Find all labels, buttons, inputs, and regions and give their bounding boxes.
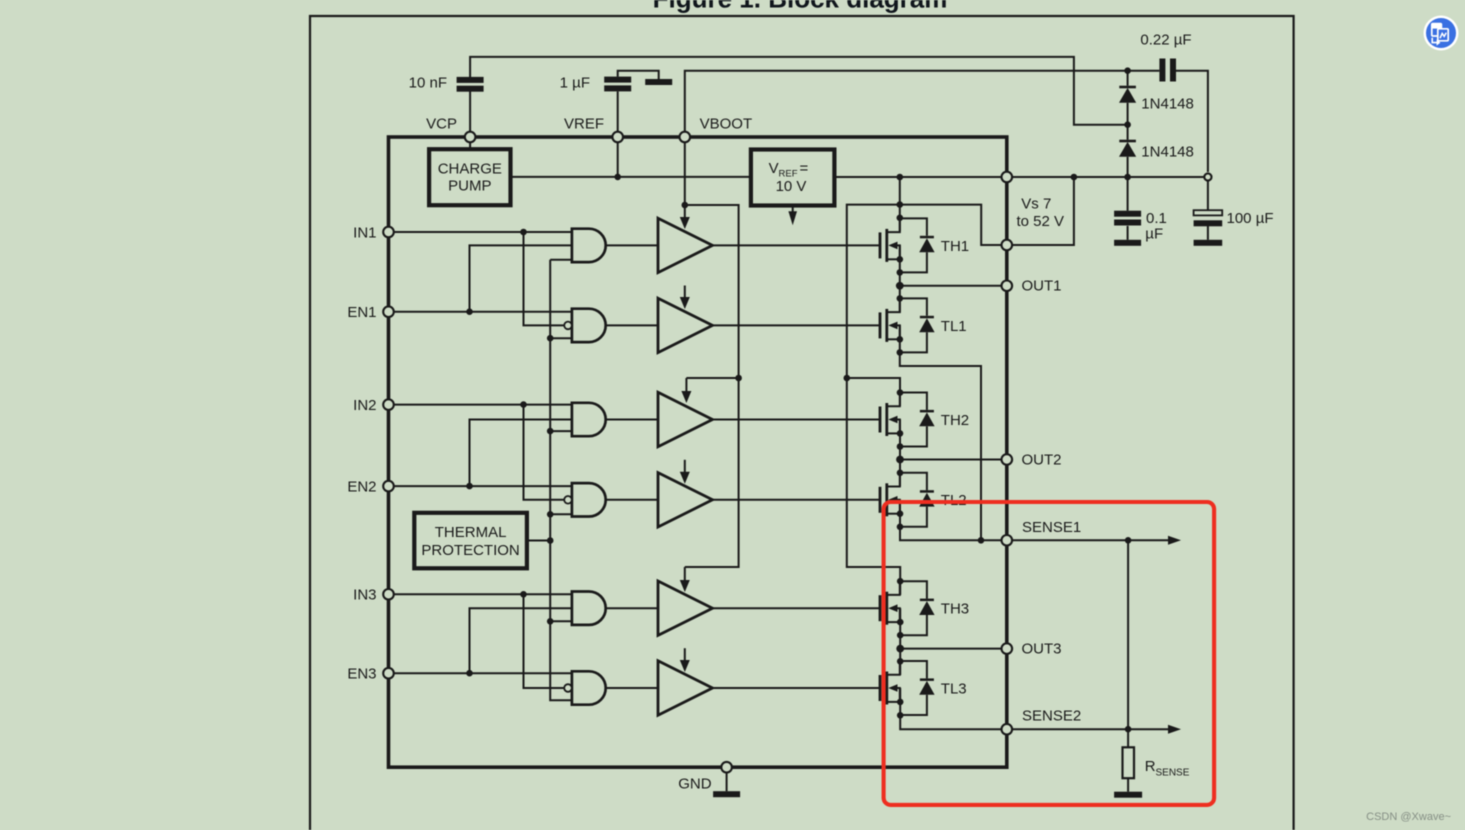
wire TL2 source to SENSE1 pin [900, 500, 1002, 541]
wire IN2 to inverting input gate 4 [524, 405, 565, 500]
svg-text:PROTECTION: PROTECTION [421, 542, 519, 559]
junction TL1 source [897, 336, 904, 343]
transistor TH3 body diode [900, 581, 935, 635]
svg-text:IN1: IN1 [353, 224, 376, 241]
pin IN1 [383, 227, 394, 238]
wire thermal bus input stub [550, 430, 572, 432]
wire IN3 to inverting input gate 6 [524, 594, 565, 688]
AND gate G1 [572, 229, 606, 262]
wire Vs supply line external [1012, 176, 1208, 178]
junction sense bus / SENSE1 [978, 537, 985, 544]
svg-text:CSDN @Xwave~: CSDN @Xwave~ [1366, 811, 1451, 823]
pin Vs 2 [1002, 240, 1013, 251]
junction Vs line / TH1 drain rail [897, 174, 904, 181]
junction TH1 drain node [897, 201, 904, 208]
junction TL3 diode top [897, 658, 904, 665]
junction drain bus channel 2 [844, 375, 851, 382]
junction TH1 diode top [897, 215, 904, 222]
pin VREF [612, 132, 623, 143]
wire EN3 to gate 5 [470, 608, 572, 673]
junction OUT2 node [896, 456, 904, 464]
svg-text:THERMAL: THERMAL [435, 524, 507, 541]
transistor TL2 body diode [900, 473, 935, 527]
wire buffer B4 to gate of transistor [713, 499, 881, 501]
transistor TL2 symbol [880, 473, 900, 517]
wire buffer B1 to gate of transistor [713, 244, 881, 246]
wire AND gate G4 (inverting input) output [606, 499, 658, 501]
wire TH3 source to TL3 drain [899, 608, 901, 675]
pin GND [721, 762, 732, 773]
svg-text:OUT2: OUT2 [1022, 451, 1062, 468]
wire thermal protection bus [550, 260, 572, 701]
thermal protection box [414, 513, 527, 569]
wire buffer B5 to gate of transistor [713, 607, 881, 609]
charge pump box [429, 149, 510, 205]
junction TH3 diode top [897, 578, 904, 585]
wire GND pin to ground [726, 772, 728, 791]
AND gate G3 [572, 403, 606, 436]
pin VCP [465, 132, 476, 143]
transistor TL1 body diode [900, 298, 935, 352]
wire VBOOT pin down to buffer bus [684, 137, 686, 205]
wire EN3 to gate 6 [389, 672, 572, 674]
wire VBOOT to 0.22uF cap [685, 71, 1160, 137]
buffer driver B3 [658, 392, 713, 446]
svg-text:CHARGE: CHARGE [438, 161, 502, 178]
junction OUT1 node [896, 282, 904, 290]
pin IN2 [383, 399, 394, 410]
diode D2 1N4148 [1119, 125, 1136, 177]
pin OUT2 [1002, 454, 1013, 465]
ground Rsense [1114, 792, 1142, 798]
wire TH2 source to TL2 drain [899, 420, 901, 487]
junction EN1 bus [466, 308, 473, 315]
junction IN2 bus [520, 401, 527, 408]
svg-text:Vs 7: Vs 7 [1021, 196, 1051, 213]
svg-text:TL3: TL3 [941, 680, 967, 697]
wire thermal bus input stub [550, 337, 572, 339]
svg-text:0.1: 0.1 [1146, 210, 1167, 227]
wire TH1 drain to Vs pin 2 [900, 205, 1002, 245]
arrow supply into buffer B6 [680, 648, 690, 672]
transistor TH2 body diode [900, 393, 935, 447]
junction TH3 diode bottom [897, 632, 904, 639]
wire OUT1 node to pin [900, 285, 1002, 287]
transistor TL3 symbol [880, 661, 900, 705]
svg-text:TH3: TH3 [941, 601, 969, 618]
svg-text:PUMP: PUMP [448, 178, 491, 195]
buffer driver B2 [658, 298, 713, 352]
terminal Vs supply [1204, 173, 1211, 180]
wire TH3 drain rail [899, 581, 901, 595]
wire AND gate G2 (inverting input) output [606, 324, 658, 326]
wire TL3 source to SENSE2 pin [900, 688, 1002, 729]
wire OUT2 node to pin [900, 459, 1002, 461]
wire AND gate G5 output [606, 607, 658, 609]
junction EN2 bus [466, 483, 473, 490]
wire VREF cap to VREF pin [617, 92, 619, 138]
svg-text:SENSE1: SENSE1 [1022, 519, 1081, 536]
wire TH1 source to TL1 drain [899, 245, 901, 312]
junction EN3 bus [466, 670, 473, 677]
svg-text:µF: µF [1145, 226, 1163, 243]
wire IN2 to gate 3 [389, 404, 572, 406]
junction OUT3 node [896, 645, 904, 653]
junction SENSE1 / Rsense [1125, 537, 1132, 544]
wire charge pump output line [511, 176, 751, 178]
svg-text:TL1: TL1 [941, 318, 967, 335]
junction thermal bus / gate 4 [547, 511, 554, 518]
capacitor 100 uF (polarized) [1194, 210, 1223, 226]
pin OUT1 [1002, 281, 1013, 292]
wire SENSE2 external with arrow [1012, 725, 1181, 734]
svg-text:TH1: TH1 [941, 238, 969, 255]
svg-text:GND: GND [678, 776, 712, 793]
capacitor 10 nF [457, 77, 484, 92]
svg-text:IN3: IN3 [353, 587, 376, 604]
arrow VBOOT into buffer B1 [680, 205, 690, 229]
wire TH2 drain rail [899, 393, 901, 407]
wire buffer B3 to gate of transistor [713, 419, 881, 421]
pin VBOOT [680, 132, 691, 143]
capacitor 1 uF [604, 77, 631, 92]
svg-text:EN1: EN1 [347, 304, 376, 321]
wire VCP pin to charge pump [469, 137, 471, 149]
transistor TH3 symbol [880, 581, 900, 625]
transistor TL3 body diode [900, 661, 935, 715]
AND gate G2 (inverting input) [564, 309, 605, 342]
pin EN3 [383, 668, 394, 679]
buffer driver B1 [658, 218, 713, 272]
wire supply to Vs pin 2 [1012, 177, 1074, 245]
svg-text:V: V [769, 160, 779, 177]
buffer driver B5 [658, 581, 713, 635]
junction Vs line / pin loop [1071, 174, 1078, 181]
wire thermal box output [527, 540, 550, 542]
wire 0.22uF cap to supply terminal [1176, 71, 1208, 172]
svg-text:=: = [800, 160, 809, 177]
junction IN3 bus [520, 591, 527, 598]
wire thermal bus to gate 1 [550, 259, 572, 261]
wire Vs to 0.1uF cap [1127, 177, 1129, 211]
capacitor 0.1 uF [1114, 211, 1141, 226]
AND gate G4 (inverting input) [564, 483, 606, 516]
wire to Rsense [1127, 729, 1129, 747]
wire VCP cap to diode junction [470, 57, 1128, 125]
arrow VREF internal supply [788, 206, 797, 226]
buffer driver B4 [658, 473, 713, 527]
svg-text:OUT1: OUT1 [1022, 278, 1062, 295]
pin SENSE2 [1002, 724, 1013, 735]
junction TL1 diode bottom [897, 349, 904, 356]
wire buffer B2 to gate of transistor [713, 324, 881, 326]
wire IN1 to gate 1 [389, 231, 572, 233]
junction TH2 source [897, 430, 904, 437]
svg-text:Figure 1. Block diagram: Figure 1. Block diagram [653, 0, 948, 14]
wire AND gate G1 output [606, 244, 658, 246]
svg-text:10 nF: 10 nF [409, 75, 447, 92]
ground near 1 uF cap [645, 79, 672, 85]
pin EN1 [383, 306, 394, 317]
wire VCP cap to VCP pin [469, 92, 471, 138]
junction TH1 diode bottom [897, 269, 904, 276]
pin IN3 [383, 589, 394, 600]
wire VBOOT bus to buffer 3 [686, 377, 738, 379]
wire IN1 to inverting input gate 2 [524, 232, 565, 325]
wire EN1 to gate 2 [389, 311, 572, 313]
svg-text:VREF: VREF [564, 116, 604, 133]
junction Vs line / D2 / 0.1uF [1124, 174, 1131, 181]
transistor TL1 symbol [880, 298, 900, 342]
transistor TH1 symbol [880, 218, 900, 262]
junction TL3 source [897, 699, 904, 706]
arrow supply into buffer B2 [680, 286, 690, 310]
junction TL1 diode top [897, 295, 904, 302]
diode D1 1N4148 [1119, 71, 1136, 125]
svg-text:VCP: VCP [426, 116, 457, 133]
wire 0.1uF cap to ground [1127, 226, 1129, 240]
svg-text:1N4148: 1N4148 [1141, 144, 1194, 161]
junction TH1 source [897, 256, 904, 263]
junction thermal bus / gate 3 [547, 428, 554, 435]
ground GND [713, 791, 740, 797]
svg-text:1 µF: 1 µF [560, 75, 590, 92]
svg-text:100 µF: 100 µF [1227, 210, 1274, 227]
svg-text:VBOOT: VBOOT [700, 116, 753, 133]
wire 100uF cap to ground [1207, 226, 1209, 240]
junction VBOOT / D1 / 0.22uF [1124, 67, 1131, 74]
junction TL2 diode bottom [897, 524, 904, 531]
wire TH1 drain rail [899, 177, 901, 231]
AND gate G6 (inverting input) [564, 671, 606, 704]
AND gate G5 [572, 592, 606, 625]
wire SENSE1 external with arrow [1012, 536, 1181, 545]
wire terminal to 100uF cap [1207, 177, 1209, 210]
pin SENSE1 [1002, 535, 1013, 546]
wire AND gate G6 (inverting input) output [606, 687, 658, 689]
svg-text:R: R [1145, 758, 1156, 775]
wire Rsense to ground [1127, 778, 1129, 792]
junction TH2 diode bottom [897, 443, 904, 450]
capacitor 0.22 uF [1159, 59, 1176, 82]
wire IN3 to gate 5 [389, 593, 572, 595]
svg-text:EN3: EN3 [347, 666, 376, 683]
wire thermal bus input stub [550, 620, 572, 622]
wire EN1 to gate 1 [470, 245, 572, 311]
wire SENSE1 to SENSE2 [1127, 540, 1129, 729]
svg-text:SENSE2: SENSE2 [1022, 708, 1081, 725]
wire buffer B6 to gate of transistor [713, 687, 881, 689]
svg-text:1N4148: 1N4148 [1141, 96, 1194, 113]
svg-text:to 52 V: to 52 V [1017, 213, 1065, 230]
svg-text:IN2: IN2 [353, 397, 376, 414]
IC block border [389, 137, 1007, 767]
arrow supply into buffer B4 [680, 460, 690, 484]
junction SENSE2 / Rsense [1125, 726, 1132, 733]
junction thermal bus / gate 2 [547, 335, 554, 342]
red highlight rectangle [884, 502, 1215, 805]
junction TH3 source [897, 619, 904, 626]
figure border [310, 16, 1294, 830]
blue image icon top right [1424, 16, 1459, 51]
buffer driver B6 [658, 661, 713, 715]
junction thermal bus / gate 5 [547, 618, 554, 625]
pin Vs [1002, 172, 1013, 183]
junction VBOOT bus / buffer 1 [682, 202, 689, 209]
svg-text:10 V: 10 V [776, 178, 807, 195]
wire VBOOT bus to channel 2 [685, 205, 739, 378]
junction VREF / charge pump line [614, 174, 621, 181]
wire VREF box to Vs pin [834, 176, 1001, 178]
junction TL2 diode top [897, 470, 904, 477]
VREF regulator box [751, 150, 835, 206]
resistor Rsense [1123, 747, 1135, 778]
ground 100 uF [1194, 240, 1223, 246]
wire TL1 source to sense bus [900, 325, 981, 540]
pin EN2 [383, 481, 394, 492]
pin OUT3 [1002, 643, 1013, 654]
transistor TH1 body diode [900, 218, 935, 272]
junction TL2 source [897, 510, 904, 517]
junction TL3 diode bottom [897, 712, 904, 719]
wire thermal bus input stub [550, 513, 572, 515]
wire AND gate G3 output [606, 419, 658, 421]
junction D1 / D2 / VCP wire [1124, 121, 1131, 128]
arrow VBOOT into buffer B5 [680, 567, 690, 592]
wire EN2 to gate 3 [470, 420, 572, 487]
svg-text:OUT3: OUT3 [1022, 640, 1062, 657]
junction VBOOT bus channel 2 [735, 375, 742, 382]
wire VBOOT bus to buffer 5 [685, 378, 739, 567]
wire OUT3 node to pin [900, 648, 1002, 650]
arrow VBOOT into buffer B3 [681, 378, 691, 403]
junction IN1 bus [520, 229, 527, 236]
wire VREF pin down [617, 137, 619, 177]
svg-text:SENSE: SENSE [1156, 767, 1190, 778]
wire VREF cap to ground [618, 71, 659, 79]
transistor TH2 symbol [880, 393, 900, 437]
wire drain bus Vs to TH2 TH3 [847, 205, 900, 582]
svg-text:EN2: EN2 [347, 479, 376, 496]
junction thermal bus / thermal box [547, 537, 554, 544]
wire drain bus to TH2 [847, 378, 900, 393]
junction TH2 diode top [897, 389, 904, 396]
svg-text:0.22 µF: 0.22 µF [1140, 32, 1191, 49]
wire EN2 to gate 4 [389, 485, 572, 487]
svg-text:TH2: TH2 [941, 412, 969, 429]
ground 0.1 uF [1114, 240, 1141, 246]
